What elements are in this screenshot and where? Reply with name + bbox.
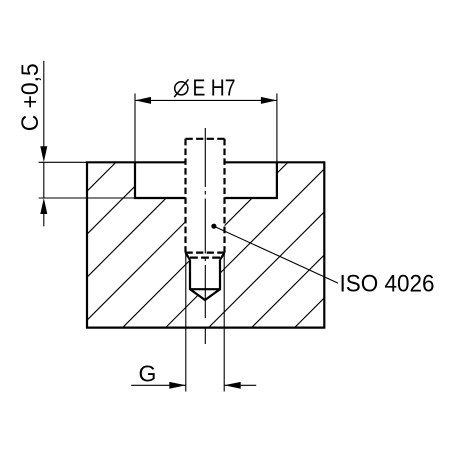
- svg-text:G: G: [139, 361, 157, 387]
- svg-text:E H7: E H7: [193, 75, 236, 101]
- svg-text:ISO 4026: ISO 4026: [340, 271, 435, 298]
- svg-text:C +0,5: C +0,5: [17, 63, 44, 131]
